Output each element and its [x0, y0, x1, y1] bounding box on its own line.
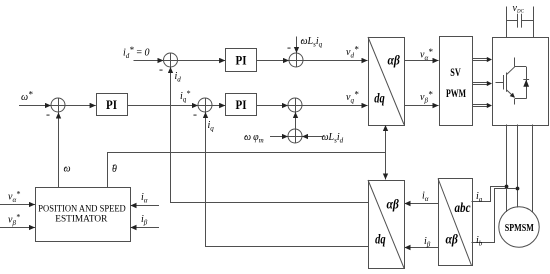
svg-text:abc: abc	[455, 201, 472, 216]
wire S1 to PI speed controller	[65, 105, 96, 107]
transistor Q1 IGBT	[496, 58, 515, 105]
svg-text:ia: ia	[476, 191, 483, 204]
wire omega* to summing junction S1	[19, 105, 51, 107]
node current tap dot ib	[516, 187, 520, 191]
summing junction S5 (d decoupling subtract)	[289, 53, 303, 67]
svg-text:ESTIMATOR: ESTIMATOR	[55, 213, 107, 223]
svg-text:-: -	[46, 107, 50, 121]
svg-text:vα*: vα*	[8, 190, 20, 205]
wire phase line b	[517, 125, 519, 208]
svg-text:dq: dq	[375, 233, 386, 248]
svg-text:-: -	[159, 62, 163, 76]
svg-text:PI: PI	[236, 52, 247, 67]
capacitor C1	[506, 14, 533, 28]
wire va* to SVPWM	[404, 60, 439, 62]
svg-text:dq: dq	[374, 92, 385, 107]
wire id feedback from dq block to S4	[171, 70, 369, 203]
wire iq feedback from dq block to S2	[206, 115, 369, 247]
svg-text:ˆ: ˆ	[65, 166, 68, 175]
svg-text:ib: ib	[476, 235, 483, 248]
node wLsiq label	[301, 36, 323, 49]
svg-text:SV: SV	[450, 67, 461, 79]
svg-text:iα: iα	[141, 192, 148, 205]
summing junction S2 (q current error)	[198, 98, 212, 112]
wire S2 to PI q controller	[212, 105, 225, 107]
position and speed estimator block U5	[36, 188, 131, 242]
svg-text:POSITION AND SPEED: POSITION AND SPEED	[38, 204, 126, 214]
wire phase line a	[506, 125, 508, 213]
alpha-beta to dq transform block U4	[368, 180, 405, 269]
wire ib sensor to abc block	[472, 189, 517, 243]
wire vb* to SVPWM	[404, 105, 439, 107]
svg-text:iβ: iβ	[424, 236, 431, 249]
svg-text:id* = 0: id* = 0	[123, 45, 150, 60]
wire gate signal bus 3 SVPWM to inverter	[472, 103, 492, 108]
svg-text:αβ: αβ	[446, 233, 459, 248]
diode D1 freewheeling	[523, 67, 529, 99]
wire ia stub into estimator	[130, 205, 159, 207]
node omega* reference input	[21, 90, 33, 104]
wire va* stub into estimator	[0, 204, 35, 206]
motor SPMSM	[499, 207, 539, 247]
wire gate signal bus 2 SVPWM to inverter	[472, 81, 492, 86]
svg-text:iq*: iq*	[180, 89, 190, 104]
wire id* to summing junction S4	[134, 60, 164, 62]
svg-text:αβ: αβ	[388, 54, 401, 69]
svg-text:-: -	[287, 40, 291, 54]
wire theta-hat distribution net	[108, 125, 386, 187]
wire PI d to summing junction S5	[257, 60, 290, 62]
wire feedforward wLsiq drop into S5	[296, 37, 298, 54]
PI block speed controller	[97, 94, 128, 116]
svg-text:-: -	[193, 107, 197, 121]
wire S4 to PI d controller	[178, 60, 226, 62]
svg-text:ω*: ω*	[21, 90, 33, 104]
abc to alpha-beta transform block U3	[438, 179, 473, 266]
node wLsid label	[322, 132, 344, 145]
wire PI speed to summing junction S2	[127, 105, 198, 107]
PI block d-axis current controller	[226, 49, 257, 72]
svg-text:iq: iq	[208, 120, 215, 133]
svg-text:vDC: vDC	[513, 3, 525, 15]
wire S3 to dq-ab block vq*	[302, 105, 368, 107]
summing junction S1 (speed error)	[51, 98, 65, 112]
summing junction S3 (q decoupling add)	[288, 98, 302, 112]
svg-text:PI: PI	[236, 97, 247, 112]
inverter block	[493, 38, 549, 126]
wire omega-hat feedback estimator to S1	[58, 112, 60, 187]
node omega-hat label	[64, 164, 71, 175]
node current tap dot ia	[505, 185, 509, 189]
svg-text:αβ: αβ	[387, 198, 400, 213]
summing junction S6 (back-emf feedforward)	[288, 129, 302, 143]
svg-text:vq*: vq*	[346, 90, 359, 105]
svg-text:iβ: iβ	[141, 214, 148, 227]
svg-text:vβ*: vβ*	[420, 90, 433, 105]
svg-text:iα: iα	[422, 191, 429, 204]
wire PI q to summing junction S3	[257, 105, 289, 107]
svg-text:id: id	[175, 71, 182, 84]
wire vb* stub into estimator	[0, 227, 35, 229]
svg-text:ˆ: ˆ	[113, 164, 116, 173]
wire wLsid into S6	[302, 136, 322, 138]
wire w phi m into S6	[270, 136, 288, 138]
svg-text:vβ*: vβ*	[8, 213, 20, 228]
svg-text:PI: PI	[106, 97, 117, 112]
svg-text:vα*: vα*	[420, 47, 433, 62]
DC bus rail left	[506, 7, 508, 38]
wire i-beta abc block to dq block	[404, 247, 438, 249]
wire gate signal bus 1 SVPWM to inverter	[472, 57, 492, 62]
SV PWM block U2	[440, 37, 473, 126]
node w phi m label	[244, 132, 264, 145]
DC bus rail right	[533, 7, 535, 38]
wire S6 to S3	[295, 112, 297, 129]
wire i-alpha abc block to dq block	[404, 203, 438, 205]
PI block q-axis current controller	[226, 94, 257, 116]
summing junction S4 (d current error)	[164, 53, 178, 67]
wire S5 to dq-ab block vd*	[303, 60, 368, 62]
svg-text:SPMSM: SPMSM	[505, 223, 534, 234]
svg-text:ˆ: ˆ	[302, 38, 305, 47]
svg-text:ˆ: ˆ	[245, 134, 248, 143]
svg-text:ˆ: ˆ	[323, 134, 326, 143]
wire collector top to diode	[515, 66, 527, 68]
svg-text:PWM: PWM	[446, 88, 466, 100]
dq to alpha-beta transform block U1	[368, 37, 405, 126]
wire ib stub into estimator	[130, 227, 159, 229]
wire phase line c	[532, 125, 534, 213]
svg-text:vd*: vd*	[346, 45, 359, 60]
node theta-hat label	[112, 164, 117, 176]
wire emitter bottom to diode	[515, 98, 527, 100]
wire ia sensor to abc block	[472, 187, 506, 202]
